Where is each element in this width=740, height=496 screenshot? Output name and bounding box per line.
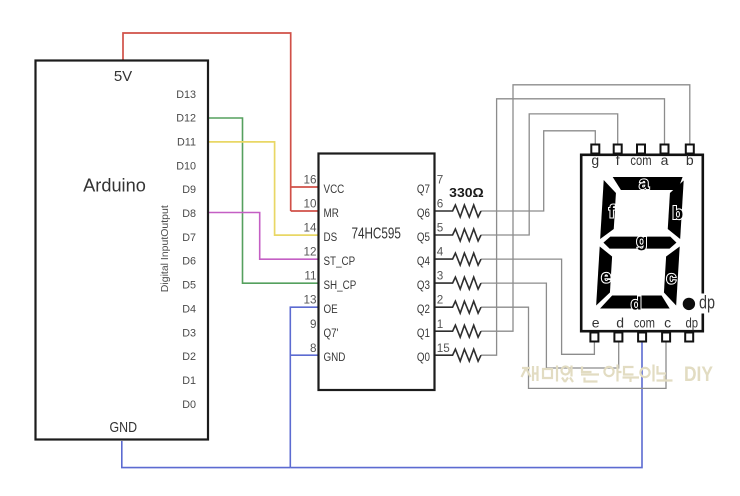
wire gray: Q1 to display segment b pin bbox=[481, 85, 690, 331]
display bottom pin labels e d com c dp bbox=[592, 314, 699, 330]
svg-text:Q2: Q2 bbox=[417, 302, 430, 316]
svg-text:g: g bbox=[591, 152, 599, 168]
wire gray: Q0 to display segment a pin bbox=[481, 99, 665, 355]
svg-text:c: c bbox=[666, 268, 676, 288]
segment f bbox=[600, 180, 617, 239]
svg-text:D12: D12 bbox=[176, 113, 196, 125]
display bottom pin e bbox=[590, 333, 598, 342]
svg-text:9: 9 bbox=[310, 318, 317, 331]
IC U1 74HC595 body bbox=[319, 154, 435, 391]
svg-text:D11: D11 bbox=[177, 137, 196, 149]
svg-text:GND: GND bbox=[324, 350, 346, 364]
display bottom pin com bbox=[638, 333, 646, 342]
svg-text:12: 12 bbox=[303, 246, 316, 259]
svg-text:GND: GND bbox=[110, 420, 138, 436]
svg-text:com: com bbox=[634, 314, 655, 330]
svg-text:D8: D8 bbox=[182, 208, 196, 220]
resistor R1 (Q6) bbox=[436, 205, 482, 217]
display top pin labels g f com a b bbox=[591, 152, 694, 168]
resistor R7 (Q0) bbox=[436, 349, 482, 361]
svg-text:Q1: Q1 bbox=[417, 326, 430, 340]
segment a bbox=[612, 177, 683, 190]
svg-text:e: e bbox=[601, 267, 611, 287]
svg-text:15: 15 bbox=[437, 342, 451, 355]
svg-text:8: 8 bbox=[310, 342, 317, 355]
wire gray: Q3 to display segment d pin bbox=[481, 283, 619, 368]
svg-text:2: 2 bbox=[437, 294, 444, 307]
svg-text:D6: D6 bbox=[182, 256, 196, 268]
svg-text:f: f bbox=[609, 201, 616, 221]
display bottom pin dp bbox=[685, 333, 693, 342]
svg-text:Q5: Q5 bbox=[417, 230, 430, 244]
svg-text:5: 5 bbox=[437, 222, 444, 235]
svg-text:Q7: Q7 bbox=[417, 182, 430, 196]
svg-text:g: g bbox=[636, 231, 647, 251]
svg-text:1: 1 bbox=[437, 318, 444, 331]
svg-text:3: 3 bbox=[437, 270, 444, 283]
svg-text:dp: dp bbox=[699, 293, 715, 313]
Arduino board body bbox=[36, 61, 209, 440]
svg-text:D10: D10 bbox=[176, 160, 196, 172]
svg-text:330Ω: 330Ω bbox=[449, 185, 484, 200]
display top pin f bbox=[614, 145, 622, 154]
svg-text:16: 16 bbox=[303, 174, 316, 187]
svg-text:D3: D3 bbox=[182, 327, 196, 339]
svg-text:5V: 5V bbox=[114, 68, 132, 85]
7-segment display DS1 body bbox=[581, 155, 703, 331]
svg-text:D2: D2 bbox=[182, 351, 196, 363]
wire green: Arduino D12 to 74HC595 SH_CP bbox=[209, 118, 318, 283]
wire gray: Q6 to display segment g pin bbox=[481, 131, 595, 211]
svg-text:Digital InputOutput: Digital InputOutput bbox=[159, 205, 171, 292]
svg-text:DIY: DIY bbox=[684, 363, 713, 386]
svg-text:D5: D5 bbox=[182, 280, 196, 292]
svg-text:7: 7 bbox=[437, 174, 444, 187]
svg-text:Q7': Q7' bbox=[324, 326, 339, 340]
segment e bbox=[596, 247, 613, 306]
wire gray: Q2 to display segment c pin bbox=[481, 307, 666, 388]
display top pin b bbox=[686, 145, 694, 154]
svg-text:D1: D1 bbox=[182, 375, 196, 387]
wire blue GND net: OE and GND of 74HC595 to Arduino GND and display com bbox=[122, 307, 642, 467]
wire gray: Q5 to display segment f pin bbox=[481, 114, 618, 235]
svg-text:D0: D0 bbox=[182, 399, 196, 411]
segment b bbox=[667, 181, 684, 240]
wire 5V red: Arduino 5V to 74HC595 VCC and MR bbox=[123, 33, 318, 211]
resistor R3 (Q4) bbox=[436, 253, 482, 265]
svg-text:D9: D9 bbox=[182, 184, 196, 196]
svg-text:11: 11 bbox=[304, 270, 316, 283]
resistor R4 (Q3) bbox=[436, 277, 482, 289]
svg-text:d: d bbox=[631, 294, 642, 314]
svg-text:f: f bbox=[616, 152, 620, 168]
segment d bbox=[600, 296, 670, 309]
svg-text:D7: D7 bbox=[182, 232, 196, 244]
display bottom pin c bbox=[662, 333, 670, 342]
svg-text:VCC: VCC bbox=[324, 182, 345, 196]
svg-text:DS: DS bbox=[324, 230, 338, 244]
svg-text:c: c bbox=[664, 314, 671, 330]
resistor R2 (Q5) bbox=[436, 229, 482, 241]
display top pin a bbox=[661, 145, 669, 154]
svg-text:ST_CP: ST_CP bbox=[324, 254, 356, 268]
7-segment digit segments bbox=[596, 177, 684, 309]
resistor R6 (Q1) bbox=[436, 325, 482, 337]
svg-text:D4: D4 bbox=[182, 303, 196, 315]
segment letter labels bbox=[601, 173, 683, 314]
svg-text:b: b bbox=[686, 152, 694, 168]
svg-text:MR: MR bbox=[324, 206, 339, 220]
svg-text:Q6: Q6 bbox=[417, 206, 430, 220]
wire magenta: Arduino D8 to 74HC595 ST_CP bbox=[209, 213, 318, 260]
svg-text:b: b bbox=[672, 203, 683, 223]
svg-text:D13: D13 bbox=[176, 89, 196, 101]
svg-text:Q0: Q0 bbox=[417, 350, 430, 364]
segment g bbox=[603, 237, 677, 249]
svg-text:14: 14 bbox=[303, 222, 317, 235]
svg-text:e: e bbox=[592, 314, 600, 330]
display top pin g bbox=[591, 145, 599, 154]
svg-text:a: a bbox=[661, 152, 669, 168]
svg-text:d: d bbox=[616, 314, 624, 330]
watermark (decorative) bbox=[522, 365, 673, 383]
svg-text:OE: OE bbox=[324, 302, 338, 316]
dp label (over display border) bbox=[698, 294, 716, 314]
decimal point dp dot bbox=[683, 298, 695, 310]
svg-text:Q4: Q4 bbox=[417, 254, 430, 268]
display bottom pin d bbox=[614, 333, 622, 342]
svg-text:Q3: Q3 bbox=[417, 278, 430, 292]
svg-text:SH_CP: SH_CP bbox=[324, 278, 357, 292]
svg-text:6: 6 bbox=[437, 198, 444, 211]
svg-text:74HC595: 74HC595 bbox=[351, 226, 401, 243]
svg-text:Arduino: Arduino bbox=[83, 175, 146, 195]
segment c bbox=[663, 247, 680, 306]
svg-text:13: 13 bbox=[303, 294, 316, 307]
resistor R5 (Q2) bbox=[436, 301, 482, 313]
wire yellow: Arduino D11 to 74HC595 DS bbox=[209, 142, 318, 235]
wire gray: Q4 to display segment e pin bbox=[481, 259, 594, 354]
svg-text:com: com bbox=[630, 152, 651, 168]
display top pin com bbox=[637, 145, 645, 154]
svg-text:dp: dp bbox=[686, 314, 699, 330]
svg-text:4: 4 bbox=[437, 246, 444, 259]
svg-text:10: 10 bbox=[303, 198, 317, 211]
svg-text:a: a bbox=[639, 173, 650, 193]
